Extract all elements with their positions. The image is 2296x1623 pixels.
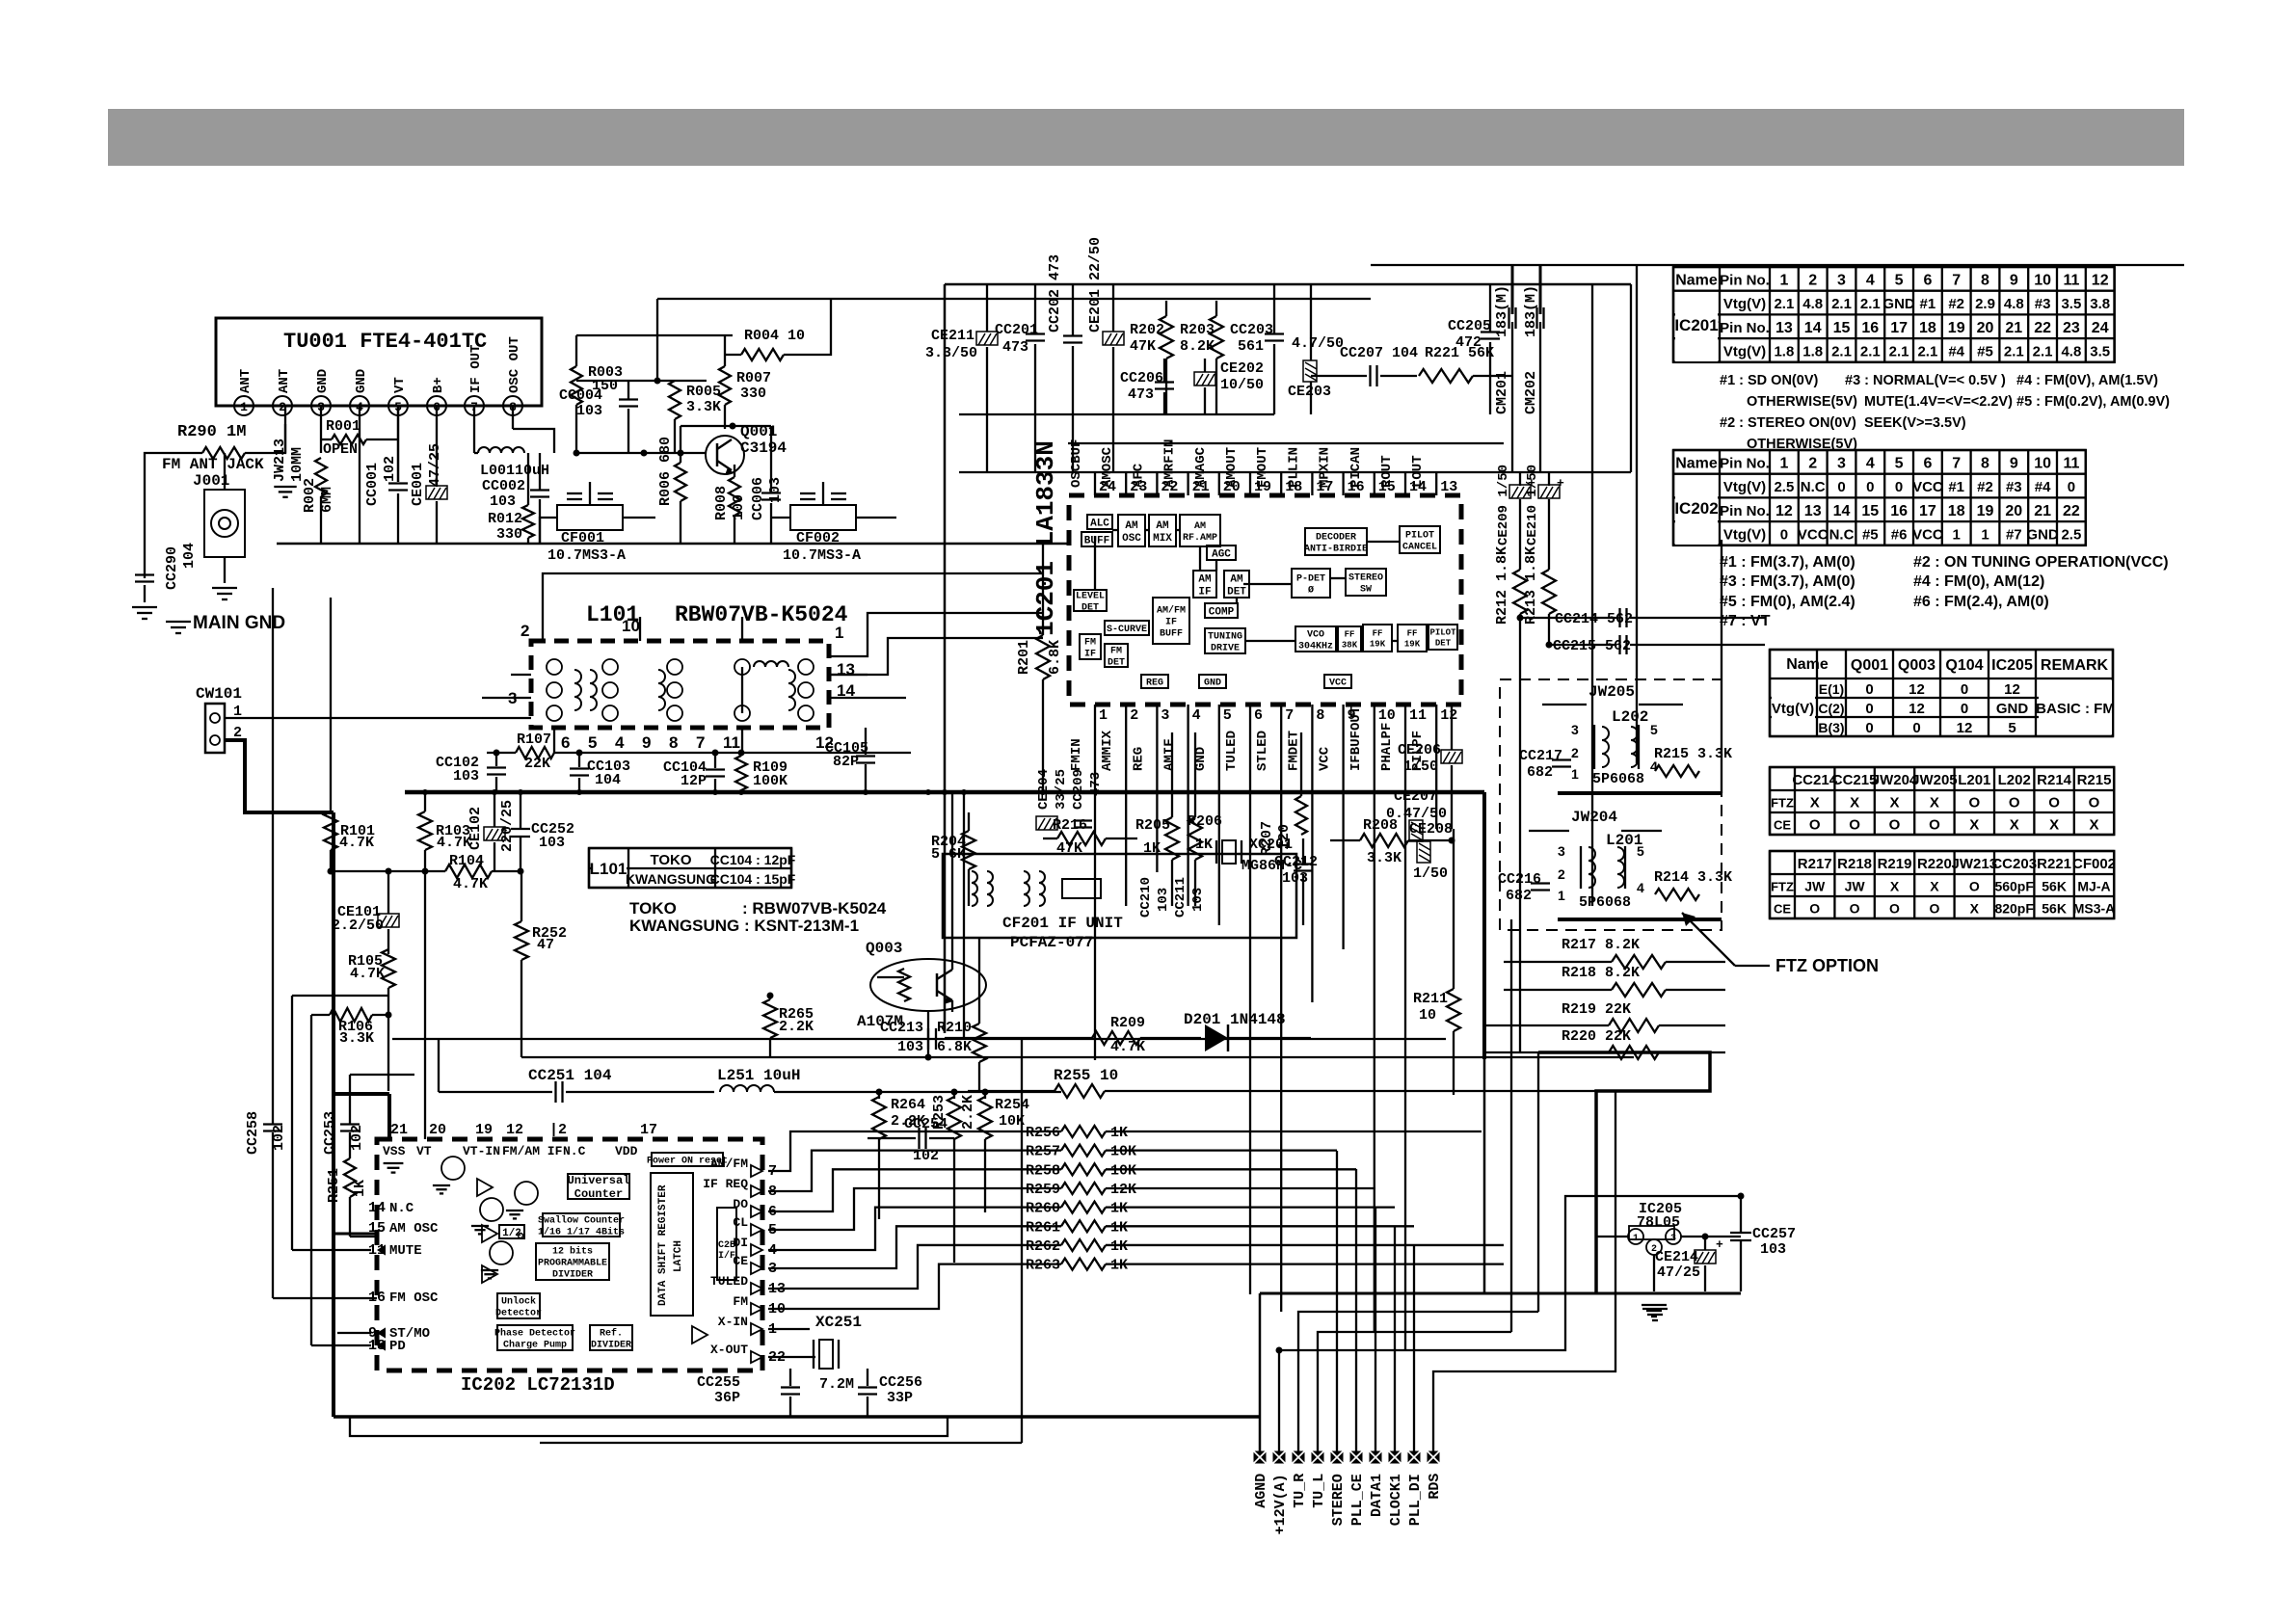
svg-text:682: 682 <box>1506 888 1532 904</box>
svg-text:O: O <box>1968 795 1980 811</box>
svg-text:R215: R215 <box>2077 772 2112 788</box>
svg-text:R006 680: R006 680 <box>657 437 674 506</box>
svg-text:Vtg(V): Vtg(V) <box>1723 343 1766 359</box>
svg-text:FM: FM <box>733 1294 748 1309</box>
svg-text:Vtg(V): Vtg(V) <box>1723 296 1766 312</box>
svg-text:12: 12 <box>2004 681 2020 698</box>
svg-text:560pF: 560pF <box>1994 879 2034 894</box>
svg-text:GND: GND <box>354 369 369 393</box>
svg-text:R219 22K: R219 22K <box>1562 1001 1631 1018</box>
svg-text:47: 47 <box>537 937 554 953</box>
svg-text:X: X <box>1889 795 1899 811</box>
svg-text:O: O <box>1929 901 1939 917</box>
svg-text:IC202: IC202 <box>1674 499 1718 518</box>
svg-text:CE210 1/50: CE210 1/50 <box>1525 465 1540 545</box>
svg-text:4.7K: 4.7K <box>437 835 471 851</box>
svg-text:R213 1.8K: R213 1.8K <box>1523 546 1539 625</box>
svg-text:+: + <box>1557 476 1564 491</box>
svg-text:CLOCK1: CLOCK1 <box>1388 1474 1404 1526</box>
svg-text:19: 19 <box>475 1122 493 1138</box>
svg-text:2.1: 2.1 <box>1774 296 1794 312</box>
svg-text:FMOUT: FMOUT <box>1255 447 1270 488</box>
svg-text:AGC: AGC <box>1212 548 1231 560</box>
svg-text:36P: 36P <box>714 1390 740 1406</box>
svg-text:#3 : FM(3.7), AM(0): #3 : FM(3.7), AM(0) <box>1720 573 1855 590</box>
svg-text:REG: REG <box>1146 678 1163 689</box>
svg-text:R201: R201 <box>1016 640 1032 675</box>
svg-text:: RBW07VB-K5024: : RBW07VB-K5024 <box>742 899 887 918</box>
svg-text:R205: R205 <box>1135 817 1170 834</box>
svg-text:VDD: VDD <box>615 1144 638 1158</box>
svg-text:GND: GND <box>1996 701 2029 717</box>
svg-text:14: 14 <box>368 1200 386 1216</box>
svg-text:473: 473 <box>1128 386 1154 403</box>
svg-text:8: 8 <box>1316 707 1324 724</box>
svg-text:X: X <box>2049 817 2059 834</box>
svg-text:AMAGC: AMAGC <box>1193 446 1209 488</box>
svg-text:103: 103 <box>453 768 479 785</box>
svg-text:+12V(A): +12V(A) <box>1272 1474 1289 1534</box>
svg-text:MAIN GND: MAIN GND <box>193 613 285 633</box>
svg-text:P-DET: P-DET <box>1296 574 1325 585</box>
svg-text:22: 22 <box>2063 503 2080 519</box>
svg-text:4: 4 <box>1637 880 1644 895</box>
svg-text:AM: AM <box>1198 573 1212 585</box>
svg-text:BUFF: BUFF <box>1160 629 1183 640</box>
svg-text:2: 2 <box>1571 745 1579 760</box>
svg-text:CC209: CC209 <box>1071 769 1086 810</box>
svg-text:AM: AM <box>1125 520 1138 532</box>
svg-text:#5 : FM(0.2V), AM(0.9V): #5 : FM(0.2V), AM(0.9V) <box>2016 394 2170 410</box>
svg-text:OSCBUF: OSCBUF <box>1069 439 1084 488</box>
svg-text:0: 0 <box>1865 681 1873 698</box>
svg-text:CC214 562: CC214 562 <box>1555 611 1633 627</box>
svg-text:AM: AM <box>1230 573 1243 585</box>
svg-text:12P: 12P <box>681 773 707 789</box>
svg-text:12: 12 <box>1909 701 1925 717</box>
svg-text:Q003: Q003 <box>866 940 902 957</box>
svg-text:#4 : FM(0), AM(12): #4 : FM(0), AM(12) <box>1913 573 2044 590</box>
svg-text:CC202 473: CC202 473 <box>1047 254 1063 333</box>
svg-text:CC217: CC217 <box>1519 748 1562 764</box>
svg-text:10/50: 10/50 <box>1220 377 1264 393</box>
svg-text:DECODER: DECODER <box>1316 533 1356 544</box>
svg-text:Counter: Counter <box>574 1187 623 1201</box>
svg-text:5: 5 <box>1895 272 1904 288</box>
svg-text:R254: R254 <box>995 1097 1029 1113</box>
svg-text:5P6068: 5P6068 <box>1592 771 1644 787</box>
svg-text:9: 9 <box>642 733 651 752</box>
svg-text:TULED: TULED <box>710 1274 748 1289</box>
svg-text:17: 17 <box>640 1122 657 1138</box>
svg-text:JW213: JW213 <box>1952 856 1998 872</box>
svg-text:STEREO: STEREO <box>1330 1474 1347 1526</box>
svg-text:X: X <box>2089 817 2098 834</box>
svg-text:R209: R209 <box>1110 1015 1145 1031</box>
svg-text:21: 21 <box>2005 320 2022 336</box>
svg-text:1.8: 1.8 <box>1802 343 1823 359</box>
svg-text:MUTE: MUTE <box>389 1243 422 1259</box>
svg-text:N.C: N.C <box>389 1201 414 1216</box>
svg-text:8: 8 <box>1981 272 1989 288</box>
svg-text:PILOT: PILOT <box>1429 628 1456 638</box>
svg-text:N.C: N.C <box>1801 479 1826 495</box>
svg-text:R258: R258 <box>1026 1162 1060 1179</box>
svg-text:R007: R007 <box>736 370 771 386</box>
svg-text:5: 5 <box>2008 720 2016 736</box>
svg-text:DI: DI <box>733 1236 748 1250</box>
svg-text:X-IN: X-IN <box>718 1315 748 1329</box>
svg-text:XC251: XC251 <box>815 1314 862 1331</box>
svg-text:4: 4 <box>1192 707 1201 724</box>
svg-text:3: 3 <box>1837 455 1846 471</box>
svg-text:330: 330 <box>496 526 522 543</box>
svg-text:CF002: CF002 <box>2072 856 2116 872</box>
svg-text:103: 103 <box>1190 888 1206 912</box>
svg-text:CC210: CC210 <box>1138 877 1154 918</box>
svg-text:R259: R259 <box>1026 1182 1060 1198</box>
svg-text:CC253: CC253 <box>322 1111 338 1155</box>
svg-text:1/50: 1/50 <box>1413 865 1448 882</box>
svg-text:BASIC : FM: BASIC : FM <box>2036 701 2115 717</box>
svg-text:X: X <box>1890 879 1900 894</box>
svg-text:#7 : VT: #7 : VT <box>1720 613 1771 629</box>
svg-text:3: 3 <box>1837 272 1846 288</box>
svg-text:2: 2 <box>1558 866 1565 882</box>
svg-text:12: 12 <box>2092 272 2109 288</box>
svg-text:CE: CE <box>1774 902 1791 917</box>
svg-text:R220: R220 <box>1917 856 1952 872</box>
svg-text:R210: R210 <box>937 1020 972 1036</box>
svg-text:11: 11 <box>1409 707 1427 724</box>
svg-text:0: 0 <box>1865 701 1873 717</box>
svg-text:7.2M: 7.2M <box>819 1376 854 1393</box>
svg-text:47K: 47K <box>1130 338 1156 355</box>
svg-text:OSC OUT: OSC OUT <box>507 336 522 393</box>
svg-text:Pin No.: Pin No. <box>1720 320 1770 336</box>
svg-text:AM: AM <box>1156 520 1169 532</box>
svg-text:CC104 : 12pF: CC104 : 12pF <box>710 852 796 867</box>
svg-text:CC004: CC004 <box>559 387 602 404</box>
svg-text:103: 103 <box>1156 888 1171 912</box>
svg-text:ANTI-BIRDIE: ANTI-BIRDIE <box>1304 545 1368 555</box>
svg-text:VCC: VCC <box>1329 678 1347 689</box>
svg-text:CC001: CC001 <box>364 463 381 506</box>
svg-text:Name: Name <box>1675 272 1718 288</box>
svg-text:10.7MS3-A: 10.7MS3-A <box>547 547 626 564</box>
svg-text:11: 11 <box>2063 455 2079 471</box>
svg-text:JW205: JW205 <box>1589 683 1635 701</box>
svg-text:FM ANT JACK: FM ANT JACK <box>162 456 264 473</box>
svg-text:1C201 LA1833N: 1C201 LA1833N <box>1031 440 1060 636</box>
svg-text:2: 2 <box>1130 707 1138 724</box>
svg-text:2: 2 <box>521 622 529 640</box>
svg-text:#3: #3 <box>2035 296 2051 312</box>
svg-text:33/25: 33/25 <box>1054 769 1069 810</box>
svg-text:OTHERWISE(5V): OTHERWISE(5V) <box>1747 394 1857 410</box>
svg-text:#3: #3 <box>2006 479 2022 495</box>
svg-text:R262: R262 <box>1026 1238 1060 1255</box>
svg-text:R005: R005 <box>686 384 721 400</box>
svg-text:20: 20 <box>2005 503 2022 519</box>
svg-text:MUTE(1.4V=<V=<2.2V): MUTE(1.4V=<V=<2.2V) <box>1864 394 2013 410</box>
svg-text:ANT: ANT <box>238 369 254 393</box>
svg-text:X: X <box>1969 817 1979 834</box>
svg-text:CC255: CC255 <box>697 1374 740 1391</box>
svg-text:O: O <box>1889 817 1901 834</box>
svg-text:RBW07VB-K5024: RBW07VB-K5024 <box>675 602 848 627</box>
svg-text:0: 0 <box>1895 479 1903 495</box>
svg-text:PICAN: PICAN <box>1348 447 1364 488</box>
svg-text:820pF: 820pF <box>1994 901 2034 917</box>
svg-text:CW101: CW101 <box>196 685 242 703</box>
svg-text:#2: #2 <box>1977 479 1993 495</box>
svg-text:B+: B+ <box>431 377 446 393</box>
svg-text:X: X <box>1930 795 1939 811</box>
svg-text:1/50: 1/50 <box>1403 758 1438 775</box>
svg-text:120: 120 <box>1276 824 1293 850</box>
svg-text:#6: #6 <box>1891 526 1908 543</box>
svg-text:DET: DET <box>1435 639 1452 649</box>
svg-text:#5: #5 <box>1862 526 1879 543</box>
svg-text:L202: L202 <box>1998 772 2031 788</box>
svg-text:3.3/50: 3.3/50 <box>925 345 977 361</box>
svg-text:KWANGSUNG: KWANGSUNG <box>626 871 716 887</box>
svg-text:TU_R: TU_R <box>1292 1474 1308 1508</box>
svg-text:Unlock: Unlock <box>501 1296 536 1308</box>
svg-text:R004 10: R004 10 <box>744 328 805 344</box>
svg-text:DATA SHIFT REGISTER: DATA SHIFT REGISTER <box>657 1184 669 1306</box>
svg-text:FTZ OPTION: FTZ OPTION <box>1775 956 1879 975</box>
svg-text:CE: CE <box>733 1254 748 1268</box>
svg-text:MPXIN: MPXIN <box>1318 447 1333 488</box>
svg-text:TOKO: TOKO <box>650 852 691 868</box>
svg-text:AMRFIN: AMRFIN <box>1162 439 1178 488</box>
svg-text:#4: #4 <box>2035 479 2051 495</box>
svg-text:3.3K: 3.3K <box>686 399 721 415</box>
svg-text:7: 7 <box>1952 272 1961 288</box>
svg-text:#4 : FM(0V), AM(1.5V): #4 : FM(0V), AM(1.5V) <box>2016 373 2158 388</box>
svg-text:18: 18 <box>1919 320 1936 336</box>
svg-text:GND: GND <box>315 369 331 393</box>
svg-text:R207: R207 <box>1259 821 1275 856</box>
svg-text:0: 0 <box>1866 479 1874 495</box>
svg-text:R202: R202 <box>1130 322 1164 338</box>
svg-text:14: 14 <box>1804 320 1822 336</box>
svg-text:19K: 19K <box>1370 640 1386 650</box>
svg-text:CE208: CE208 <box>1409 821 1453 838</box>
svg-text:IFBUFOUT: IFBUFOUT <box>1348 706 1364 771</box>
svg-text:13: 13 <box>1440 479 1457 495</box>
svg-text:R264: R264 <box>891 1097 925 1113</box>
svg-text:AMOUT: AMOUT <box>1224 447 1240 488</box>
svg-text:2.1: 2.1 <box>1831 343 1852 359</box>
svg-text:16: 16 <box>1890 503 1908 519</box>
svg-text:GND: GND <box>1204 678 1221 689</box>
svg-text:R008: R008 <box>713 486 730 520</box>
svg-text:AGND: AGND <box>1253 1474 1269 1508</box>
svg-text:12 bits: 12 bits <box>552 1246 593 1258</box>
svg-text:VCC: VCC <box>1798 526 1829 543</box>
svg-text:12: 12 <box>1909 681 1925 698</box>
svg-text:Charge Pump: Charge Pump <box>503 1340 567 1351</box>
svg-text:2.1: 2.1 <box>2004 343 2024 359</box>
svg-text:AMMIX: AMMIX <box>1100 730 1115 771</box>
svg-text:R206: R206 <box>1188 813 1222 830</box>
svg-text:682: 682 <box>1527 764 1553 781</box>
svg-text:R208: R208 <box>1363 817 1398 834</box>
svg-text:DET: DET <box>1227 586 1246 598</box>
svg-text:GND: GND <box>1882 296 1915 312</box>
svg-text:103: 103 <box>897 1039 923 1055</box>
svg-text:Universal: Universal <box>568 1174 630 1187</box>
svg-text:FF: FF <box>1345 630 1355 640</box>
svg-text:21: 21 <box>390 1122 408 1138</box>
svg-text:8: 8 <box>1981 455 1989 471</box>
svg-text:IF: IF <box>1084 650 1096 660</box>
svg-text:Q003: Q003 <box>1898 657 1936 674</box>
svg-text:10: 10 <box>2034 455 2051 471</box>
svg-text:STEREO: STEREO <box>1348 573 1383 584</box>
svg-text:8.2K: 8.2K <box>1180 338 1215 355</box>
svg-text:56K: 56K <box>2042 901 2067 917</box>
svg-text:19K: 19K <box>1404 640 1421 650</box>
svg-text:4.7/50: 4.7/50 <box>1292 335 1344 352</box>
svg-text:L201: L201 <box>1958 772 1990 788</box>
svg-text:304KHz: 304KHz <box>1298 642 1333 652</box>
svg-text:REG: REG <box>1131 747 1146 771</box>
svg-text:|2: |2 <box>549 1122 567 1138</box>
svg-text:CE214: CE214 <box>1655 1249 1698 1265</box>
svg-text:CL: CL <box>733 1215 748 1230</box>
svg-text:1: 1 <box>1558 888 1565 903</box>
svg-text:3.8: 3.8 <box>2090 296 2110 312</box>
svg-text:Vtg(V): Vtg(V) <box>1723 479 1766 495</box>
svg-text:VSS: VSS <box>383 1144 406 1158</box>
svg-text:2.1: 2.1 <box>1860 296 1881 312</box>
svg-text:1: 1 <box>835 624 843 642</box>
svg-text:5: 5 <box>588 733 597 752</box>
svg-text:CC257: CC257 <box>1752 1226 1796 1242</box>
svg-text:4: 4 <box>1866 272 1875 288</box>
svg-text:DRIVE: DRIVE <box>1211 644 1240 654</box>
svg-text:CM201: CM201 <box>1494 371 1510 414</box>
svg-text:VT-IN: VT-IN <box>463 1144 500 1158</box>
svg-text:#2: #2 <box>1948 296 1964 312</box>
svg-text:#2 : STEREO ON(0V): #2 : STEREO ON(0V) <box>1720 415 1856 431</box>
svg-text:103: 103 <box>539 835 565 851</box>
svg-text:Vtg(V): Vtg(V) <box>1723 526 1766 543</box>
svg-text:103: 103 <box>1760 1241 1786 1258</box>
svg-text:C3194: C3194 <box>740 439 787 457</box>
svg-text:CC203: CC203 <box>1230 322 1273 338</box>
svg-text:E(1): E(1) <box>1819 681 1844 697</box>
svg-text:6: 6 <box>561 733 570 752</box>
svg-text:1K: 1K <box>1110 1258 1128 1274</box>
svg-text:FTZ: FTZ <box>1771 796 1794 811</box>
svg-text:CC002: CC002 <box>482 478 525 494</box>
svg-text:33P: 33P <box>887 1390 913 1406</box>
svg-text:X: X <box>1970 901 1980 917</box>
svg-text:CC214: CC214 <box>1792 772 1837 788</box>
svg-text:CC290: CC290 <box>164 546 180 590</box>
svg-text:VCO: VCO <box>1307 630 1324 641</box>
svg-text:2.1: 2.1 <box>1917 343 1937 359</box>
svg-text:12K: 12K <box>1110 1182 1136 1198</box>
svg-text:#1: #1 <box>1920 296 1936 312</box>
svg-text:R219: R219 <box>1878 856 1912 872</box>
svg-text:JW: JW <box>1804 879 1826 894</box>
svg-text:R261: R261 <box>1026 1219 1060 1236</box>
svg-text:VCC: VCC <box>1912 479 1943 495</box>
svg-text:JW205: JW205 <box>1911 772 1958 788</box>
svg-text:0: 0 <box>1780 526 1788 543</box>
svg-text:6: 6 <box>1254 707 1263 724</box>
svg-text:1: 1 <box>1953 526 1961 543</box>
svg-text:DIVIDER: DIVIDER <box>552 1270 593 1281</box>
svg-text:FM/AM IF: FM/AM IF <box>502 1144 563 1158</box>
svg-text:R256: R256 <box>1026 1125 1060 1141</box>
svg-text:CC258: CC258 <box>245 1111 261 1155</box>
svg-text:0: 0 <box>1865 720 1873 736</box>
svg-text:R218: R218 <box>1837 856 1872 872</box>
svg-text:R220 22K: R220 22K <box>1562 1028 1631 1045</box>
svg-text:Detector: Detector <box>495 1309 542 1319</box>
svg-text:R107: R107 <box>517 732 551 748</box>
svg-text:AMOSC: AMOSC <box>1100 446 1115 488</box>
svg-text:19: 19 <box>1977 503 1994 519</box>
svg-text:KWANGSUNG : KSNT-213M-1: KWANGSUNG : KSNT-213M-1 <box>629 917 859 935</box>
svg-text:Pin No.: Pin No. <box>1720 272 1770 288</box>
svg-text:AFC: AFC <box>1131 463 1146 488</box>
svg-text:18: 18 <box>1948 503 1965 519</box>
svg-text:R211: R211 <box>1413 991 1448 1007</box>
svg-text:2.2K: 2.2K <box>960 1095 976 1130</box>
svg-text:472: 472 <box>1455 334 1482 351</box>
svg-text:CE207: CE207 <box>1394 788 1437 805</box>
svg-text:PHALPF: PHALPF <box>1379 723 1395 771</box>
svg-text:BUFF: BUFF <box>1084 535 1109 546</box>
svg-text:1K: 1K <box>1110 1125 1128 1141</box>
svg-text:C(2): C(2) <box>1818 701 1844 716</box>
svg-text:CE204: CE204 <box>1036 769 1052 810</box>
svg-text:SW: SW <box>1360 585 1372 596</box>
svg-text:DET: DET <box>1108 658 1125 669</box>
svg-text:2: 2 <box>1808 272 1817 288</box>
svg-text:103: 103 <box>576 403 602 419</box>
svg-text:#1 : SD ON(0V): #1 : SD ON(0V) <box>1720 373 1818 388</box>
svg-text:X: X <box>2010 817 2019 834</box>
svg-text:4.8: 4.8 <box>2004 296 2024 312</box>
svg-text:AMIF: AMIF <box>1162 738 1178 771</box>
svg-text:24: 24 <box>2092 320 2109 336</box>
svg-text:11: 11 <box>2063 272 2079 288</box>
svg-text:10: 10 <box>2034 272 2051 288</box>
svg-text:N.C: N.C <box>1829 526 1855 543</box>
svg-text:R257: R257 <box>1026 1144 1060 1160</box>
svg-text:#2 : ON TUNING OPERATION(VCC): #2 : ON TUNING OPERATION(VCC) <box>1913 554 2169 571</box>
svg-text:1: 1 <box>1779 272 1788 288</box>
svg-text:3: 3 <box>1161 707 1169 724</box>
svg-text:O: O <box>1929 817 1940 834</box>
svg-text:FMDET: FMDET <box>1286 731 1301 771</box>
svg-text:1.8: 1.8 <box>1774 343 1794 359</box>
svg-text:MIX: MIX <box>1153 533 1172 545</box>
svg-text:13: 13 <box>1804 503 1822 519</box>
svg-text:3: 3 <box>1558 843 1565 859</box>
svg-text:330: 330 <box>740 386 766 402</box>
svg-text:REMARK: REMARK <box>2041 657 2109 674</box>
